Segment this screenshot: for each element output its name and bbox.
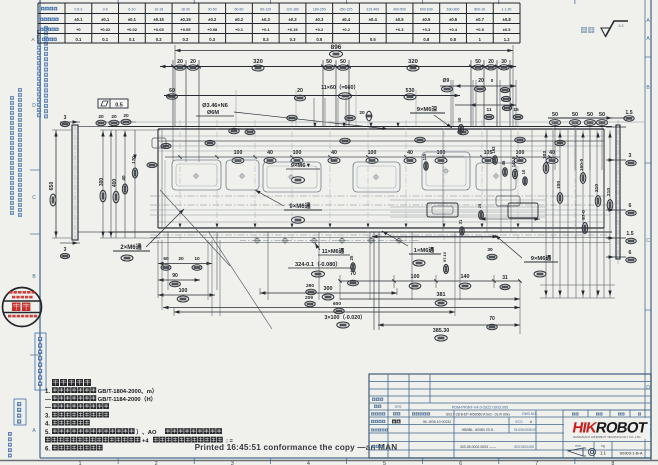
svg-text:2: 2 <box>155 461 158 465</box>
bottom-left dims 60/20/10 <box>158 263 212 265</box>
svg-text:0: 0 <box>491 78 494 83</box>
svg-text:0.2: 0.2 <box>156 37 162 42</box>
svg-text:30-50: 30-50 <box>208 8 217 12</box>
tick arrows along plate bottom <box>179 224 182 229</box>
svg-text:S03 0303.005: S03 0303.005 <box>514 445 534 449</box>
dim 3x100 <box>174 311 455 313</box>
svg-text:GB/T-1184-2000（H）: GB/T-1184-2000（H） <box>98 395 157 403</box>
svg-text:60: 60 <box>169 88 175 94</box>
bottom flange lines <box>150 237 610 239</box>
svg-text:45: 45 <box>501 160 506 165</box>
svg-text:20: 20 <box>111 114 117 120</box>
svg-text:+0.05: +0.05 <box>154 27 165 32</box>
svg-text:9×M6通: 9×M6通 <box>289 202 310 210</box>
svg-text:20: 20 <box>297 88 303 94</box>
svg-text:6.3: 6.3 <box>619 24 624 28</box>
svg-text:70: 70 <box>489 316 495 322</box>
plate top edges <box>108 121 645 123</box>
svg-text:170: 170 <box>131 156 136 164</box>
svg-text:+0.2: +0.2 <box>315 27 324 32</box>
svg-text:140: 140 <box>461 274 470 280</box>
right side view strip <box>616 125 620 259</box>
top right 50-chain <box>548 117 612 119</box>
svg-text:400-500: 400-500 <box>393 8 406 12</box>
svg-text:0.2: 0.2 <box>183 37 189 42</box>
svg-text:C: C <box>646 238 650 244</box>
650 vertical dim <box>55 130 57 238</box>
svg-text:±0.7: ±0.7 <box>476 17 485 22</box>
small stacked ovals right <box>500 87 509 92</box>
svg-text:10: 10 <box>521 169 526 174</box>
margin doc number boxes <box>35 333 46 390</box>
svg-text:1.: 1. <box>45 389 50 395</box>
svg-text:6-10: 6-10 <box>128 8 135 12</box>
svg-text:11×M6通: 11×M6通 <box>322 247 345 255</box>
svg-text:97.10: 97.10 <box>442 251 447 262</box>
svg-text:50: 50 <box>326 59 332 65</box>
svg-text:GB/T-1804-2000、m）: GB/T-1804-2000、m） <box>98 387 158 395</box>
svg-text:5.: 5. <box>45 430 50 436</box>
svg-text:800-1K: 800-1K <box>474 8 486 12</box>
svg-text:100: 100 <box>368 150 377 156</box>
svg-text:50: 50 <box>587 112 593 118</box>
svg-text:+0.05: +0.05 <box>180 27 191 32</box>
svg-text:+0.02: +0.02 <box>127 27 138 32</box>
svg-text:±0.4: ±0.4 <box>342 17 351 22</box>
svg-text:50: 50 <box>599 112 605 118</box>
svg-text:650: 650 <box>49 182 55 191</box>
svg-text:3.: 3. <box>45 414 50 420</box>
svg-text:30: 30 <box>487 247 493 253</box>
svg-text:±0.5: ±0.5 <box>503 27 512 32</box>
third angle projection symbol <box>568 448 583 456</box>
svg-text:±0.3: ±0.3 <box>262 17 271 22</box>
svg-text:+0: +0 <box>76 27 81 32</box>
svg-text:8: 8 <box>611 461 614 465</box>
svg-text:40: 40 <box>267 150 273 156</box>
svg-text:20: 20 <box>178 256 184 262</box>
svg-text:+0.2: +0.2 <box>342 27 351 32</box>
svg-text:324-0.1（-0.080）: 324-0.1（-0.080） <box>295 260 341 268</box>
svg-text:6: 6 <box>459 461 462 465</box>
technical notes block <box>52 379 91 386</box>
svg-text:2×M6通: 2×M6通 <box>120 243 141 251</box>
svg-text:）、AO: ）、AO <box>136 428 157 436</box>
svg-text:100: 100 <box>179 288 188 294</box>
svg-text:300: 300 <box>324 286 333 292</box>
svg-text:103: 103 <box>542 151 548 159</box>
svg-text:40: 40 <box>407 150 413 156</box>
svg-text:±0.1: ±0.1 <box>128 17 137 22</box>
svg-text:25: 25 <box>477 203 482 208</box>
svg-text:11×60（=660）: 11×60（=660） <box>321 83 359 91</box>
flatness frame <box>98 99 128 108</box>
top edge down arrows + verticals <box>314 123 317 128</box>
HIKROBOT logo (merged cell) <box>564 418 650 439</box>
svg-text:9×M6通: 9×M6通 <box>531 254 552 262</box>
svg-text:S0303-1-B-A: S0303-1-B-A <box>619 451 642 456</box>
svg-text:50-80: 50-80 <box>234 8 243 12</box>
svg-text:1:1: 1:1 <box>600 451 606 456</box>
svg-text:3: 3 <box>231 461 234 465</box>
svg-text:31: 31 <box>502 275 508 281</box>
svg-text:03.005.0006.00: 03.005.0006.00 <box>514 428 536 432</box>
svg-text:0.1: 0.1 <box>102 37 108 42</box>
svg-text:630-800: 630-800 <box>447 8 460 12</box>
dim 385.30 <box>378 324 520 326</box>
svg-text:303.05.0002.0003 ——: 303.05.0002.0003 —— <box>460 445 497 449</box>
svg-text:0.3: 0.3 <box>263 37 269 42</box>
svg-text:20: 20 <box>98 114 104 120</box>
svg-text:1×M6通: 1×M6通 <box>414 246 435 254</box>
svg-text:100: 100 <box>234 150 243 156</box>
svg-text:HBBBL. 80980 23 D-: HBBBL. 80980 23 D- <box>462 428 496 432</box>
svg-text:+0.15: +0.15 <box>287 27 298 32</box>
svg-text:1.2: 1.2 <box>504 37 510 42</box>
svg-text:+0.5: +0.5 <box>476 27 485 32</box>
svg-text:5: 5 <box>383 461 386 465</box>
svg-text:HIKROBOT: HIKROBOT <box>571 420 649 437</box>
svg-text:40: 40 <box>121 175 126 181</box>
svg-text:80-120: 80-120 <box>260 8 271 12</box>
svg-text:3: 3 <box>64 247 67 253</box>
svg-text:70: 70 <box>350 271 356 277</box>
svg-text:+0.08: +0.08 <box>207 27 218 32</box>
svg-text:±0.4: ±0.4 <box>369 17 378 22</box>
svg-text:+4: +4 <box>142 439 149 445</box>
svg-text:20: 20 <box>190 59 196 65</box>
svg-text:600: 600 <box>333 301 341 307</box>
svg-text:120-180: 120-180 <box>286 8 299 12</box>
svg-text:140.5: 140.5 <box>511 156 516 167</box>
svg-text:6: 6 <box>629 250 632 256</box>
right-mid extra lines <box>390 199 545 201</box>
svg-text:±0.1: ±0.1 <box>101 17 110 22</box>
svg-text:+0.1: +0.1 <box>262 27 271 32</box>
svg-text:20: 20 <box>123 113 129 119</box>
svg-text:Printed 16:45:51 conformance t: Printed 16:45:51 conformance the copy —a… <box>195 443 398 452</box>
svg-text:±0.8: ±0.8 <box>503 17 512 22</box>
title block <box>369 374 651 458</box>
small detail pockets right-mid <box>496 196 520 206</box>
svg-text:250-315: 250-315 <box>340 8 353 12</box>
bottom dims row 70/100/140/31 <box>340 280 520 282</box>
svg-text:Ø6M: Ø6M <box>207 110 219 116</box>
note line 7 <box>45 437 140 443</box>
svg-text:0.3: 0.3 <box>290 37 296 42</box>
vertical lines above plate right <box>450 80 452 127</box>
svg-text:0.5: 0.5 <box>115 103 123 109</box>
tolerance table <box>38 2 520 4</box>
projection lines from side view <box>78 126 158 128</box>
svg-text:±0.5: ±0.5 <box>422 17 431 22</box>
svg-text:100: 100 <box>516 150 525 156</box>
svg-text:500-630: 500-630 <box>420 8 433 12</box>
svg-text:210: 210 <box>606 188 612 196</box>
svg-text:0.5-3: 0.5-3 <box>74 8 82 12</box>
svg-text:50: 50 <box>572 112 578 118</box>
svg-text:—: — <box>45 397 51 403</box>
svg-text:+0.4: +0.4 <box>449 27 458 32</box>
extra scattered ovals <box>340 138 350 143</box>
svg-text:D: D <box>646 385 650 391</box>
svg-text:HANGZHOU HIKROBOT TECHNOLOGY C: HANGZHOU HIKROBOT TECHNOLOGY CO.,LTD. <box>573 435 642 439</box>
surface finish: qi yu + check symbol <box>581 27 594 33</box>
double vertical lines below plate <box>373 232 375 330</box>
svg-text:290: 290 <box>306 283 314 289</box>
svg-text:Ø3.46×N6: Ø3.46×N6 <box>202 103 228 109</box>
svg-text:163: 163 <box>491 146 496 154</box>
svg-text:25: 25 <box>349 255 354 260</box>
svg-text:0.5: 0.5 <box>370 37 376 42</box>
svg-text:50: 50 <box>340 59 346 65</box>
svg-text:±0.15: ±0.15 <box>180 17 191 22</box>
svg-text:115: 115 <box>422 153 427 160</box>
svg-text:±0.6: ±0.6 <box>449 17 458 22</box>
svg-text:31: 31 <box>458 219 463 224</box>
left vertical dim chain <box>102 130 104 238</box>
pockets row <box>172 160 221 190</box>
pocket center holes <box>194 174 198 178</box>
svg-text:A: A <box>31 37 34 42</box>
svg-text:60: 60 <box>163 256 169 262</box>
svg-text:+0.3: +0.3 <box>396 27 405 32</box>
top dim chain row 2 : 11x60 <box>164 95 460 97</box>
svg-text:9×M6▼: 9×M6▼ <box>291 163 311 169</box>
svg-text:90: 90 <box>172 273 178 279</box>
svg-text:50: 50 <box>552 112 558 118</box>
svg-text:±0.5: ±0.5 <box>395 17 404 22</box>
svg-text:40: 40 <box>549 150 555 156</box>
svg-text:±0.3: ±0.3 <box>288 17 297 22</box>
svg-text:9×M6深: 9×M6深 <box>417 105 438 113</box>
svg-text:0.3: 0.3 <box>209 37 215 42</box>
svg-text:mm: mm <box>575 444 581 448</box>
svg-text:±0.15: ±0.15 <box>153 17 164 22</box>
dim 896 overall length <box>175 50 513 52</box>
svg-text:4.: 4. <box>45 422 50 428</box>
center dash-dot lines <box>150 195 610 197</box>
svg-text:0.1: 0.1 <box>129 37 135 42</box>
top dim chain row 1 <box>160 66 516 68</box>
svg-text:20: 20 <box>359 110 365 116</box>
svg-text:S03.T-28 B-EP-A/50060 A 0x0 -: S03.T-28 B-EP-A/50060 A 0x0 - 01-R 00xx <box>446 413 510 417</box>
svg-text:18-30: 18-30 <box>181 8 190 12</box>
sheet frame <box>39 0 41 458</box>
svg-text:3×100（-0.020）: 3×100（-0.020） <box>324 313 365 321</box>
svg-text:100: 100 <box>293 150 302 156</box>
plate bottom edges <box>158 227 604 229</box>
svg-text:210: 210 <box>594 184 600 192</box>
svg-text:6.: 6. <box>45 447 50 453</box>
vertical center lines through plate <box>179 120 181 240</box>
svg-text:320: 320 <box>253 59 263 65</box>
svg-text:100: 100 <box>556 181 562 189</box>
svg-text:+0.1: +0.1 <box>235 27 244 32</box>
svg-text:315-400: 315-400 <box>366 8 379 12</box>
svg-text:ECO: ECO <box>516 420 523 424</box>
svg-text:C: C <box>32 195 36 201</box>
svg-text:1.5: 1.5 <box>625 110 632 116</box>
svg-text:1-1.2K: 1-1.2K <box>501 8 512 12</box>
left side view strip <box>72 125 78 240</box>
svg-text:7: 7 <box>535 461 538 465</box>
svg-text:10-18: 10-18 <box>154 8 163 12</box>
svg-text:+0.02: +0.02 <box>100 27 111 32</box>
svg-text:180-250: 180-250 <box>313 8 326 12</box>
svg-text:0.1: 0.1 <box>75 37 81 42</box>
svg-text:97-0: 97-0 <box>581 210 587 220</box>
pocket dashed inner <box>176 164 217 186</box>
svg-text:896: 896 <box>331 44 342 51</box>
svg-text:+0.3: +0.3 <box>422 27 431 32</box>
svg-text:±0.3: ±0.3 <box>315 17 324 22</box>
svg-text:3: 3 <box>629 153 632 159</box>
svg-text:381: 381 <box>437 292 446 298</box>
svg-text:D: D <box>32 103 36 109</box>
svg-text:320: 320 <box>408 59 418 65</box>
svg-text:3: 3 <box>64 115 67 121</box>
svg-text:SYS: SYS <box>395 405 403 409</box>
svg-text:40: 40 <box>331 150 337 156</box>
svg-text:50: 50 <box>475 59 481 65</box>
svg-text:30: 30 <box>501 59 507 65</box>
svg-text:1.5: 1.5 <box>626 231 633 237</box>
holes along bottom edge <box>255 238 259 242</box>
svg-text:0.8: 0.8 <box>450 37 456 42</box>
svg-text:385.30: 385.30 <box>433 328 450 334</box>
svg-text:20: 20 <box>488 59 494 65</box>
svg-text:10: 10 <box>194 256 200 262</box>
svg-text:400: 400 <box>112 179 118 188</box>
right side vertical dims <box>545 130 547 298</box>
svg-text:3-6: 3-6 <box>103 8 108 12</box>
internal 100/40 dim chain <box>165 156 560 158</box>
svg-text:20: 20 <box>478 78 484 84</box>
svg-text:DWG.NO.-: DWG.NO.- <box>522 412 537 416</box>
red controlled stamp <box>3 288 42 327</box>
svg-text:±0.2: ±0.2 <box>208 17 217 22</box>
svg-text:kg: kg <box>601 444 605 448</box>
dims 300 / 381 <box>260 292 397 294</box>
svg-text:0.8: 0.8 <box>423 37 429 42</box>
svg-text:4: 4 <box>307 461 310 465</box>
svg-text:50: 50 <box>457 117 462 122</box>
svg-text:160-0: 160-0 <box>579 159 585 172</box>
svg-text:209: 209 <box>305 295 313 301</box>
extra ovals left band <box>147 162 157 167</box>
svg-text:0.5: 0.5 <box>316 37 322 42</box>
svg-text:±0.2: ±0.2 <box>235 17 244 22</box>
svg-text:06.-9/05-10 00232: 06.-9/05-10 00232 <box>423 420 452 424</box>
svg-text:11: 11 <box>486 107 491 113</box>
margin confidential text columns <box>44 26 48 118</box>
svg-text:—: — <box>45 405 51 411</box>
svg-text:1: 1 <box>79 461 82 465</box>
svg-text:6: 6 <box>629 203 632 209</box>
svg-text:300: 300 <box>99 178 105 187</box>
svg-text:PDM-PRINT-V4.0-2022 0303.005: PDM-PRINT-V4.0-2022 0303.005 <box>452 406 509 410</box>
svg-text:530: 530 <box>406 88 415 94</box>
svg-text:20: 20 <box>177 59 183 65</box>
plate left/right edge <box>157 129 159 228</box>
svg-text:Ø9: Ø9 <box>443 78 450 84</box>
svg-text:±0.1: ±0.1 <box>74 17 83 22</box>
left step details <box>152 138 166 148</box>
svg-text:100: 100 <box>411 274 420 280</box>
